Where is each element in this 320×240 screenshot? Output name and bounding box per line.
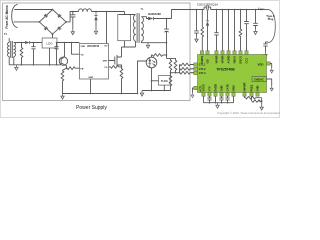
capacitor C11 pin 221 (219, 96, 223, 103)
wire EN pin right (267, 79, 272, 86)
ground chassis bottom rail (216, 103, 219, 109)
inductor L1 on rail (79, 9, 92, 12)
wire LDO output rail to U1 VDD (57, 42, 80, 44)
svg-text:VTX: VTX (207, 86, 211, 91)
bridge diode bottom-left (44, 27, 48, 31)
svg-text:B330A/3M: B330A/3M (148, 12, 160, 16)
svg-text:VDD: VDD (81, 46, 86, 48)
wire ACTL pin to ground (193, 88, 194, 93)
wire top pin 216 with series cap (214, 10, 218, 51)
wire rail into clamp top (119, 12, 135, 15)
wire secondary bottom lead (141, 41, 166, 43)
wire VBUS to plug (263, 9, 269, 11)
junction dot R10 left (179, 72, 181, 74)
junction dot rail HV tap (106, 11, 108, 13)
ground chassis at ACTL (191, 93, 194, 98)
bridge diode top-right (57, 14, 61, 18)
svg-text:CTL2: CTL2 (199, 67, 206, 71)
junction dot output node (166, 18, 168, 20)
wire bottom pin 215 (215, 96, 217, 103)
resistor R6 pullup b (174, 59, 177, 73)
U3 bottom pin boxes (202, 93, 259, 97)
wire top pin 234 (234, 10, 236, 51)
svg-text:VDD: VDD (258, 62, 264, 66)
wire opto emitter to primary gnd (138, 61, 147, 94)
resistor R11 TL431 divider (169, 73, 172, 91)
resistor R7 source to gnd (120, 67, 123, 94)
svg-text:T1: T1 (140, 7, 144, 11)
U3 right pin box VDD (267, 62, 271, 65)
svg-text:CS: CS (104, 67, 108, 69)
junction dot R11 top (170, 72, 172, 74)
resistor R15 CC line b (252, 100, 262, 103)
junction dot primary gnd at R7 (121, 93, 123, 95)
junction dots bias bottom rail (21, 64, 23, 66)
wire CTL2 to pin (191, 68, 194, 70)
junction dot rail at gate R (196, 9, 198, 11)
connector J1 AC inlet (12, 4, 18, 27)
resistor R9 CTL2 (180, 67, 194, 70)
svg-text:From AC Mains: From AC Mains (5, 5, 9, 28)
svg-text:VAUX: VAUX (201, 84, 205, 91)
capacitor C8 rail decoupling (253, 10, 258, 29)
svg-text:FB: FB (81, 68, 84, 70)
junction dot rail at TVS (95, 11, 97, 13)
wire VDD pin right (270, 64, 272, 68)
clamp network box (118, 15, 131, 41)
junction dots LDO rail (56, 42, 58, 44)
diode D4 bias (25, 41, 30, 44)
wire AC line (14, 9, 52, 11)
svg-text:GDNS: GDNS (200, 56, 204, 64)
zener D2 gate clamp (206, 20, 209, 22)
wire bridge minus stub (52, 34, 54, 38)
bias winding left coil (7, 43, 9, 57)
junction dot at R15 (261, 100, 263, 102)
svg-text:GND: GND (255, 85, 259, 91)
resistor R8 CTL1 (180, 63, 194, 66)
wire Q3 gate down (206, 9, 208, 20)
wire pullup bottoms to bus (171, 72, 180, 74)
transformer T1 secondary winding (141, 17, 143, 41)
junction dot at R6 bottom (175, 72, 177, 74)
junction dot bias rail at C2 (33, 42, 35, 44)
junction dot Q2 emitter node (66, 67, 68, 69)
resistor R13 on pin 240 (239, 10, 242, 51)
resistor R14 CC line a (245, 96, 262, 99)
ground chassis bias rail (15, 65, 18, 71)
MOSFET Q1 primary switch (109, 55, 122, 67)
svg-text:PSEL: PSEL (249, 84, 253, 91)
resistor R10 CTL3 (180, 71, 194, 74)
wire divider rail (167, 58, 177, 60)
wire bottom pin 233 (233, 96, 235, 103)
U3 top pin labels (200, 55, 249, 63)
op controller U1 UCC28740 box (80, 44, 109, 80)
ground chassis at C6 (195, 37, 198, 43)
svg-text:LDO: LDO (46, 42, 53, 46)
wire VBUS riser to top rail (172, 10, 205, 19)
ground chassis at VDD cap (270, 68, 273, 73)
resistor R1 bias (20, 43, 23, 65)
transformer T1 primary winding (134, 15, 136, 41)
wire top pin 222 (222, 10, 224, 51)
vertical bus for CTL resistors (179, 65, 181, 73)
feedback ground rail (142, 90, 171, 92)
wire bias rail top (14, 42, 42, 44)
svg-text:GD: GD (205, 59, 209, 63)
wire output rail (153, 18, 171, 20)
svg-text:AGND: AGND (226, 56, 230, 64)
svg-text:GATE: GATE (225, 84, 229, 91)
ground chassis right bottom (260, 105, 263, 111)
diode D3 output rectifier (148, 17, 153, 21)
wire pin 244 down (244, 96, 246, 98)
optocoupler U4 (146, 57, 157, 68)
regulator U2 LDO box (42, 38, 57, 48)
power supply box (3, 3, 190, 101)
svg-text:Copyright © 2016, Texas Instru: Copyright © 2016, Texas Instruments Inco… (217, 111, 280, 115)
svg-text:Power Supply: Power Supply (76, 105, 107, 111)
wire CTL3 to pin (191, 72, 194, 74)
ground chassis at C9 (264, 52, 267, 58)
junction dots bottom rail (209, 102, 211, 104)
svg-text:Plug: Plug (268, 17, 274, 21)
ground chassis primary rail (61, 94, 64, 100)
svg-text:GND: GND (88, 77, 93, 79)
U3 top pin boxes (200, 51, 248, 55)
U3 EN pin box (252, 77, 267, 82)
wire bridge DC+ to rail (66, 12, 78, 22)
MOSFET Q3 VBUS switch (204, 4, 262, 10)
junction dot secondary gnd at C4 (166, 42, 168, 44)
junction dot rail at R12 (202, 9, 204, 11)
svg-text:DVDD: DVDD (213, 84, 217, 92)
resistor CS sense horizontal (109, 66, 122, 69)
junction dot primary gnd at U1 (90, 93, 92, 95)
capacitor C7 series pin 246 (244, 10, 249, 51)
IC U3 TPS25740B body (198, 55, 267, 93)
connector Type-C plug bracket (268, 9, 275, 43)
svg-text:UCC28740: UCC28740 (87, 45, 100, 48)
outer image frame (0, 0, 279, 117)
wire ref to TL431 (152, 80, 159, 82)
wire VS pin to bias rail (72, 43, 80, 55)
wire plug lower pin (266, 42, 269, 44)
junction dot CS node (121, 66, 123, 68)
svg-text:HV: HV (104, 46, 108, 48)
ground chassis below C1 (71, 29, 74, 35)
svg-text:EN/DAC: EN/DAC (254, 79, 264, 82)
svg-text:ISNS: ISNS (231, 85, 235, 91)
primary ground rail (63, 93, 138, 95)
wire secondary top lead (141, 17, 148, 19)
transistor Q2 bias BJT (59, 57, 67, 65)
resistor R3 emitter to FB (67, 67, 80, 70)
shunt reference U5 TL431 box (159, 76, 171, 86)
svg-text:VPWR: VPWR (220, 55, 224, 63)
wire HV pin to rail (106, 12, 108, 44)
wire to ground right (261, 98, 263, 105)
transformer T1 core (137, 13, 139, 43)
capacitor C2 LDO input (31, 43, 35, 65)
resistor R2 emitter to gnd (61, 68, 66, 93)
junction dot primary gnd at opto (137, 93, 139, 95)
bottom ground rail (204, 102, 234, 104)
bias bottom rail base line (9, 57, 61, 65)
wire LDO gnd pin (49, 48, 51, 65)
svg-text:VPWR: VPWR (214, 55, 218, 63)
svg-text:TPS25740B: TPS25740B (216, 68, 235, 72)
wire primary top lead (135, 14, 137, 16)
U3 left pin boxes CTL1 CTL2 CTL3 ACTL (194, 63, 198, 90)
capacitor C6 to gnd (194, 10, 199, 37)
capacitor C9 plug gnd (263, 44, 267, 52)
wire top pin 228 (228, 10, 230, 51)
wire clamp bottom to switch node (122, 41, 136, 57)
wire CTL1 to pin (191, 64, 194, 66)
svg-text:CC1: CC1 (244, 58, 248, 64)
resistor R5 pullup a (169, 59, 172, 73)
bias winding right coil (14, 43, 16, 57)
capacitor C10 pin 209 (207, 96, 211, 103)
capacitor C4 output bulk (164, 19, 169, 59)
ground chassis secondary return (146, 43, 149, 49)
wire opto anode up (152, 55, 153, 57)
wire TL431 cathode down (163, 85, 165, 90)
ground chassis at C8 (254, 29, 257, 35)
wire bias left top stub (8, 38, 10, 42)
wire pin 251 down (251, 96, 253, 101)
resistor R4 opto series (153, 54, 167, 57)
junction dot rail at input cap (72, 11, 74, 13)
wire bottom pin 203 (203, 96, 205, 103)
svg-text:GND: GND (219, 85, 223, 91)
svg-text:VBUS: VBUS (232, 56, 236, 64)
capacitor C3 LDO out (54, 43, 58, 65)
svg-text:TL431: TL431 (161, 80, 169, 83)
ground chassis below D5 (94, 29, 97, 35)
resistor R12 drain sense (201, 10, 204, 51)
junction dot bias rail at R1 (21, 42, 23, 44)
wire opto cathode down (151, 68, 153, 91)
junction dot opto to TL431 ref (151, 80, 153, 82)
capacitor C1 bulk input (70, 12, 75, 30)
wire rail after L1 (92, 11, 125, 13)
bridge diode bottom-right (57, 26, 61, 30)
junction dots fb rail (151, 90, 153, 92)
U3 bottom pin labels (201, 82, 259, 91)
bridge diode top-left (44, 14, 48, 18)
junction dot at C4 branch (166, 54, 168, 56)
bridge rectifier D1 diamond (39, 10, 66, 35)
ground chassis fb rail (140, 91, 143, 97)
zener TVS D5 to ground (94, 12, 97, 16)
svg-text:DRV: DRV (103, 61, 108, 63)
svg-text:CTL3: CTL3 (199, 71, 206, 75)
ground chassis at EN (270, 86, 273, 91)
bias winding T1 core (11, 41, 13, 58)
svg-text:DSCG: DSCG (238, 56, 242, 64)
wire AC neutral (14, 21, 40, 23)
svg-text:HIPWR: HIPWR (242, 82, 246, 91)
wire U1 GND pin down (90, 79, 92, 94)
capacitor C12 pin 227 (225, 96, 229, 103)
